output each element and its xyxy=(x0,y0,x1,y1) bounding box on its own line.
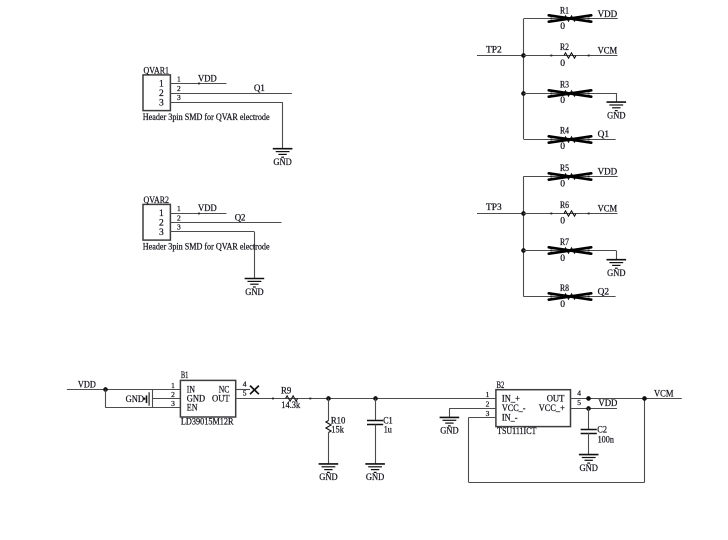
svg-text:1: 1 xyxy=(177,204,181,213)
wire main rail B1 OUT to B2 IN+ xyxy=(236,398,496,400)
no-connect X at B1 pin4 xyxy=(250,386,259,395)
svg-text:2: 2 xyxy=(177,213,181,222)
QVAR1 pin stub numbers xyxy=(177,74,181,102)
B2 left pin numbers xyxy=(486,390,490,418)
wire feedback right vertical xyxy=(644,399,646,483)
wire C2 lower xyxy=(588,433,590,454)
wire R4 row xyxy=(524,139,616,141)
resistor R10 xyxy=(326,421,331,433)
svg-text:VDD: VDD xyxy=(198,204,217,214)
junction C2 top node xyxy=(586,396,590,400)
ground QVAR1 xyxy=(273,149,293,158)
svg-text:VDD: VDD xyxy=(598,399,617,409)
junction TP3 row2 xyxy=(521,211,525,215)
svg-text:1: 1 xyxy=(159,209,164,219)
svg-text:GND: GND xyxy=(126,395,145,405)
B2 pin names xyxy=(502,394,565,423)
svg-text:0: 0 xyxy=(560,180,565,190)
svg-text:GND: GND xyxy=(273,158,292,168)
wire feedback bottom xyxy=(469,482,645,484)
svg-text:VCM: VCM xyxy=(654,390,674,400)
wire VDD branch down xyxy=(105,390,107,408)
junction VDD C2 xyxy=(586,406,590,410)
svg-text:0: 0 xyxy=(560,142,565,152)
svg-text:R7: R7 xyxy=(560,238,569,248)
svg-text:Header 3pin SMD for QVAR elect: Header 3pin SMD for QVAR electrode xyxy=(143,242,270,253)
svg-text:QVAR1: QVAR1 xyxy=(144,67,170,77)
ground TP2 R3 xyxy=(607,102,627,111)
wire B2 OUT to VCM xyxy=(571,398,682,400)
svg-text:3: 3 xyxy=(177,93,181,102)
svg-text:R9: R9 xyxy=(281,387,292,397)
svg-text:1: 1 xyxy=(159,80,164,90)
wire QVAR2 pin1 to VDD xyxy=(170,213,226,215)
QVAR1 pin numbers inside xyxy=(159,80,164,109)
svg-text:1u: 1u xyxy=(384,426,392,436)
B1 pin names xyxy=(187,385,230,413)
wire B2 pin3 feedback xyxy=(469,417,496,419)
resistor R9 xyxy=(286,396,298,401)
svg-text:R2: R2 xyxy=(560,43,569,53)
ground below R10 xyxy=(319,464,339,473)
svg-text:0: 0 xyxy=(560,22,565,32)
svg-text:TP3: TP3 xyxy=(486,203,502,213)
wire TP3 vertical bus xyxy=(523,176,525,296)
svg-text:GND: GND xyxy=(580,464,599,474)
resistor R5 xyxy=(564,174,576,179)
wire R7 row xyxy=(524,250,617,252)
junction TP2 row2 xyxy=(521,53,525,57)
svg-text:1: 1 xyxy=(177,74,181,83)
svg-text:R4: R4 xyxy=(560,127,569,137)
svg-text:TP2: TP2 xyxy=(486,46,502,56)
svg-text:VCM: VCM xyxy=(598,204,618,214)
svg-text:GND: GND xyxy=(440,427,459,437)
resistor R4 xyxy=(564,137,576,142)
capacitor C2 xyxy=(581,430,597,434)
wire R1 row xyxy=(524,18,618,20)
regulator B1 xyxy=(180,380,235,417)
resistor R1 xyxy=(564,16,576,21)
svg-text:OUT: OUT xyxy=(547,394,565,404)
resistor R7 xyxy=(564,248,576,253)
op-amp B2 xyxy=(496,390,571,427)
svg-text:0: 0 xyxy=(560,96,565,106)
svg-text:100n: 100n xyxy=(598,435,615,445)
resistor R2 xyxy=(564,53,576,58)
svg-text:0: 0 xyxy=(560,254,565,264)
svg-text:C2: C2 xyxy=(597,426,607,436)
svg-text:3: 3 xyxy=(486,409,490,418)
svg-text:15k: 15k xyxy=(331,425,344,435)
wire C1 branch lower xyxy=(375,425,377,464)
B1 right pin numbers xyxy=(243,379,247,397)
svg-text:Q1: Q1 xyxy=(254,84,265,94)
wire B2 pin5 to VDD xyxy=(571,408,618,410)
svg-text:3: 3 xyxy=(159,228,164,238)
svg-text:GND: GND xyxy=(607,269,626,279)
svg-text:IN_+: IN_+ xyxy=(502,394,520,404)
wire QVAR2 pin2 Q2 xyxy=(170,222,281,224)
svg-text:R3: R3 xyxy=(560,81,569,91)
svg-text:GND: GND xyxy=(366,473,385,483)
svg-text:Q2: Q2 xyxy=(235,214,246,224)
B2 right pin numbers xyxy=(577,389,581,408)
svg-text:0: 0 xyxy=(560,216,565,226)
ground QVAR2 xyxy=(245,279,265,288)
wire VDD to B1 pin1 xyxy=(67,389,180,391)
wire R10 branch lower xyxy=(328,433,330,464)
svg-text:LD39015M12R: LD39015M12R xyxy=(181,417,234,427)
resistor R8 xyxy=(564,294,576,299)
connector QVAR2 xyxy=(143,204,170,240)
svg-text:2: 2 xyxy=(486,400,490,409)
wire R7 to ground xyxy=(616,251,618,260)
wire R6 row xyxy=(524,213,618,215)
ground below C2 xyxy=(579,455,599,464)
wire B2 pin2 to ground xyxy=(449,408,496,410)
svg-text:3: 3 xyxy=(159,99,164,109)
svg-text:B2: B2 xyxy=(497,381,505,391)
junction VDD xyxy=(103,387,107,391)
resistor R3 xyxy=(564,91,576,96)
ground at B2 pin2 xyxy=(440,417,460,426)
ground TP3 R7 xyxy=(607,260,627,269)
wire TP2 vertical bus xyxy=(523,19,525,139)
capacitor C1 xyxy=(367,421,383,425)
ground below C1 xyxy=(365,464,385,473)
wire to B1 pin3 EN xyxy=(106,407,181,409)
wire R5 row xyxy=(524,176,618,178)
wire R3 to ground xyxy=(616,93,618,102)
junction R10 node xyxy=(326,396,330,400)
svg-text:OUT: OUT xyxy=(212,394,230,404)
svg-text:VCC_+: VCC_+ xyxy=(539,404,565,414)
wire C2 upper xyxy=(588,408,590,430)
svg-text:5: 5 xyxy=(577,398,581,407)
svg-text:GND: GND xyxy=(319,473,338,483)
connector QVAR1 xyxy=(143,75,170,111)
resistor R6 xyxy=(564,211,576,216)
svg-text:0: 0 xyxy=(560,300,565,310)
svg-text:IN_-: IN_- xyxy=(502,413,518,423)
wire C1 branch upper xyxy=(375,399,377,421)
wire QVAR2 pin3 to ground xyxy=(170,231,254,233)
wire R3 row xyxy=(524,93,617,95)
svg-text:VDD: VDD xyxy=(598,10,618,20)
svg-text:R5: R5 xyxy=(560,164,569,174)
svg-text:B1: B1 xyxy=(181,371,189,381)
wire R10 branch upper xyxy=(328,399,330,421)
svg-text:GND: GND xyxy=(607,111,626,121)
svg-text:3: 3 xyxy=(177,223,181,232)
svg-text:4: 4 xyxy=(577,389,581,398)
node TP3 xyxy=(477,213,524,215)
svg-text:Q1: Q1 xyxy=(598,130,610,140)
svg-text:2: 2 xyxy=(171,390,175,399)
svg-text:Q2: Q2 xyxy=(598,288,610,298)
wire QVAR1 pin2 Q1 xyxy=(170,93,292,95)
svg-text:R1: R1 xyxy=(560,6,569,16)
svg-text:TSU111ICT: TSU111ICT xyxy=(497,427,536,437)
svg-text:3: 3 xyxy=(171,399,175,408)
svg-text:VDD: VDD xyxy=(198,75,217,85)
wire R8 row xyxy=(524,296,616,298)
svg-text:14.3k: 14.3k xyxy=(281,401,300,411)
wire tie IN-EN vertical xyxy=(152,390,154,408)
B1 left pin numbers xyxy=(171,381,175,408)
svg-text:QVAR2: QVAR2 xyxy=(144,196,170,206)
wire B1 pin4 NC stub xyxy=(236,389,250,391)
svg-text:R6: R6 xyxy=(560,201,569,211)
svg-text:0: 0 xyxy=(560,59,565,69)
svg-text:GND: GND xyxy=(245,288,264,298)
QVAR2 pin numbers inside xyxy=(159,209,164,238)
wire R2 row xyxy=(524,55,618,57)
svg-text:VDD: VDD xyxy=(598,168,618,178)
svg-text:1: 1 xyxy=(171,381,175,390)
QVAR2 pin stub numbers xyxy=(177,204,181,232)
wire QVAR1 pin3 to ground xyxy=(170,102,282,104)
node TP2 xyxy=(477,55,524,57)
junction TP2 row3 xyxy=(521,91,525,95)
junction VCM feedback xyxy=(642,396,646,400)
wire GND to B1 pin2 xyxy=(152,398,180,400)
junction C1 node xyxy=(373,396,377,400)
svg-text:R8: R8 xyxy=(560,284,569,294)
wire QVAR1 pin1 to VDD xyxy=(170,83,226,85)
junction TP3 row3 xyxy=(521,248,525,252)
svg-text:VCM: VCM xyxy=(598,47,618,57)
svg-text:1: 1 xyxy=(486,390,490,399)
svg-text:2: 2 xyxy=(177,84,181,93)
svg-text:4: 4 xyxy=(243,379,247,388)
svg-text:EN: EN xyxy=(187,404,198,414)
svg-text:Header 3pin SMD for QVAR elect: Header 3pin SMD for QVAR electrode xyxy=(143,112,270,123)
